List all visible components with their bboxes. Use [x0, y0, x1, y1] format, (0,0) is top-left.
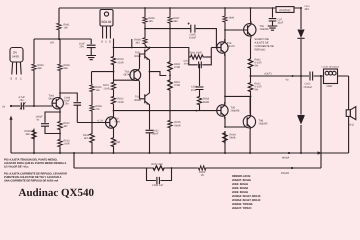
resistor R006 10k: [90, 84, 94, 93]
wire: T04 base: [211, 47, 221, 49]
wire: output rail y76: [251, 75, 349, 77]
wire: feedback up to output x321: [320, 76, 322, 168]
svg-text:33nF: 33nF: [153, 133, 159, 136]
svg-text:560R: 560R: [203, 101, 209, 104]
svg-text:BD40: BD40: [135, 55, 142, 58]
junction dots bottom rail: [33, 152, 35, 154]
svg-text:3k3: 3k3: [136, 42, 141, 45]
svg-text:10k: 10k: [96, 89, 101, 92]
junction dot T04 base: [216, 47, 218, 49]
junction dot y71.6 x113.5: [113, 71, 115, 73]
svg-text:B: B: [101, 41, 103, 44]
svg-text:220R: 220R: [118, 101, 124, 104]
wire: TA emitter to TC collector: [149, 62, 151, 91]
wire: feedback takeoff x74: [73, 153, 75, 168]
svg-text:5%: 5%: [255, 89, 259, 92]
svg-text:BA176: BA176: [227, 45, 235, 48]
junction dot TA collector: [149, 47, 151, 49]
wire: T01 collector to C004: [60, 93, 77, 102]
resistor R025 220R T02 emitter: [111, 136, 115, 148]
junction dots on y110.6: [149, 110, 151, 112]
resistor R008 3k3: [143, 37, 147, 45]
svg-text:220R: 220R: [174, 66, 180, 69]
svg-text:E: E: [109, 41, 111, 44]
svg-text:MASA: MASA: [282, 157, 290, 160]
package drawing TO-92 2N5490: [10, 48, 23, 75]
resistor R020 0.22R 5%: [248, 57, 252, 70]
wire: TB base left to divider column: [114, 79, 135, 81]
svg-text:33k: 33k: [26, 133, 31, 136]
svg-text:560R: 560R: [175, 125, 181, 128]
capacitor C02 4.7uF input: [21, 102, 23, 109]
svg-text:5490: 5490: [115, 121, 121, 124]
resistor R001 10k: [57, 22, 61, 31]
svg-text:100uF: 100uF: [189, 37, 197, 40]
svg-text:9v: 9v: [37, 119, 40, 122]
wire: column x113.5 to bus: [113, 105, 115, 110]
junction dot T01 collector: [59, 92, 61, 94]
capacitor C012 33nF: [146, 130, 154, 133]
package drawing TO-126 BD139: [100, 10, 113, 39]
wire: diode column x301: [300, 8, 302, 153]
junction dot P0 node: [291, 167, 293, 169]
svg-text:36V: 36V: [305, 8, 310, 11]
junction dot T06 collector rail: [250, 7, 252, 9]
wire: y110.6 collector bus to T05 base: [114, 110, 218, 112]
wire: TC emitter / C012 column: [149, 106, 151, 153]
svg-text:REPOSO: REPOSO: [255, 49, 266, 52]
resistor R012 4k7: [58, 120, 62, 131]
svg-text:10k: 10k: [64, 27, 69, 30]
svg-text:IN: IN: [3, 106, 6, 109]
wire: x34 column: [33, 39, 35, 153]
svg-text:OR: OR: [50, 42, 54, 45]
plus sign C005: [188, 22, 191, 24]
wire: R019 right to loop: [206, 56, 211, 58]
junction dot y127: [224, 126, 226, 128]
capacitor C022 2200uF output: [310, 72, 313, 81]
svg-text:R022 3k9: R022 3k9: [152, 163, 163, 166]
svg-text:8 Ω: 8 Ω: [350, 124, 354, 127]
resistor R013 220R: [58, 138, 62, 148]
svg-text:BD40: BD40: [135, 99, 142, 102]
wire: bootstrap y28.6: [145, 29, 216, 48]
wire: R018 to bus: [199, 106, 201, 111]
ground G1: [86, 56, 96, 60]
svg-text:2N05: BC546: 2N05: BC546: [232, 191, 248, 194]
junction dot x320.8: [320, 75, 322, 77]
transistor TA bias: [145, 48, 150, 63]
transistor T06 output 2N3055: [225, 21, 256, 39]
junction dot y96.4: [224, 96, 226, 98]
svg-text:0R47: 0R47: [327, 85, 334, 88]
wire: T01 emitter chain x57.7: [59, 112, 61, 153]
resistor R015 560R: [168, 119, 172, 129]
wire: TB emitter to TC base: [140, 81, 145, 99]
svg-text:P0A2R: P0A2R: [281, 172, 289, 175]
svg-text:56k: 56k: [64, 67, 69, 70]
wire: TA emitter jog to 220R midpoint: [150, 72, 167, 76]
wire: speaker drop x348.6: [348, 76, 350, 153]
svg-text:47nF: 47nF: [184, 63, 190, 66]
resistor R011a 220R: [113, 66, 115, 81]
capacitor C07 33uF: [269, 8, 277, 26]
svg-text:Audinac QX540: Audinac QX540: [19, 187, 95, 199]
svg-text:4k7: 4k7: [64, 125, 69, 128]
svg-text:2N6107: TIP32C: 2N6107: TIP32C: [232, 207, 252, 210]
svg-text:560B: 560B: [230, 137, 236, 140]
svg-text:Vo: Vo: [286, 79, 290, 82]
wire: T02 collector up to y110.6: [113, 111, 115, 114]
wire: input to C02: [12, 105, 20, 107]
junction dot x170 rail top: [169, 7, 171, 9]
ground G2: [268, 26, 278, 30]
diode D02: [297, 115, 304, 117]
junction dot x170 bootstrap: [169, 28, 171, 30]
svg-text:547A6: 547A6: [124, 74, 132, 77]
svg-text:C013: C013: [184, 60, 190, 63]
capacitor C008 loop parallel feedback: [147, 168, 172, 184]
junction dot x92 base wire: [91, 122, 93, 124]
svg-text:2N3054: BC627, BD140: 2N3054: BC627, BD140: [232, 199, 261, 202]
resistor R004 56k: [58, 63, 62, 72]
resistor R007 5k6: [168, 16, 172, 24]
wire: y71.6 horizontal to divider column: [92, 71, 114, 73]
resistor R023 series: [197, 166, 207, 170]
svg-text:1R: 1R: [201, 174, 204, 177]
wire: C02 to T01 base: [25, 105, 52, 107]
junction dot loop bottom: [199, 64, 201, 66]
svg-text:220R: 220R: [104, 87, 110, 90]
junction dot +Vcc corner: [300, 7, 302, 9]
capacitor C01 10uF bias decoupling + ground: [87, 39, 96, 56]
transistor T02: [106, 114, 117, 131]
wire: x170 column: [169, 8, 171, 153]
wire: TA base bus y47.5: [114, 47, 171, 49]
wire: x60 column R004 to T01: [59, 39, 61, 98]
svg-text:220R: 220R: [64, 143, 70, 146]
junction dot y47.5 x131.8 with stub: [131, 47, 133, 49]
resistor R011 220R: [168, 78, 172, 92]
junction dots C03: [59, 111, 61, 113]
wire: T06 collector to rail: [250, 8, 252, 21]
junction dot y47.5 R008 column: [144, 47, 146, 49]
svg-text:2N3054: BC637, BD139: 2N3054: BC637, BD139: [232, 195, 261, 198]
svg-text:2200uF: 2200uF: [304, 86, 313, 89]
svg-text:25v: 25v: [65, 103, 70, 106]
resistor R016 1k8: [223, 15, 227, 23]
svg-text:5k6: 5k6: [174, 20, 179, 23]
resistor R010a 220R: [113, 39, 115, 56]
svg-text:1k06: 1k06: [229, 17, 235, 20]
transistor T01: [52, 95, 63, 112]
junction dot x114: [113, 110, 115, 112]
speaker LS1: [346, 110, 350, 117]
svg-text:47nF: 47nF: [191, 89, 197, 92]
wire: C004 to T02 base: [77, 122, 109, 124]
junction dot y96.4 right: [250, 96, 252, 98]
resistor R017 560R: [223, 131, 227, 144]
junction dot y47.5 x170: [169, 47, 171, 49]
junction dot bootstrap takeoff: [144, 28, 146, 30]
wire: x225 column: [224, 8, 226, 153]
resistor R010 220R: [168, 60, 172, 73]
capacitor C03 100uF parallel R012: [41, 112, 60, 134]
svg-text:5490: 5490: [49, 98, 55, 101]
svg-text:2N3055: 2N3055: [259, 123, 269, 126]
svg-text:L=1uH 10 Espiras: L=1uH 10 Espiras: [322, 66, 340, 69]
wire: x92 divider column: [91, 72, 94, 153]
capacitor C005 100uF bootstrap: [191, 25, 195, 33]
resistor R024 4k7: [90, 132, 94, 144]
svg-text:2N05: BC546: 2N05: BC546: [232, 183, 248, 186]
svg-text:E: E: [11, 78, 13, 81]
wire: +Vcc top rail: [59, 7, 301, 9]
wire: T05 emitter to T07 base: [225, 126, 246, 128]
svg-text:25v: 25v: [20, 99, 25, 102]
wire: x145 column R009 R008: [145, 8, 148, 48]
svg-text:2N05: BC558: 2N05: BC558: [232, 187, 248, 190]
svg-text:2N3055: 2N3055: [260, 28, 270, 31]
inductor L01 box with windings: [324, 69, 338, 84]
svg-text:(OUT): (OUT): [265, 73, 272, 76]
resistor R021 0.22R 5%: [248, 81, 252, 93]
svg-text:2N5487: BC546: 2N5487: BC546: [232, 179, 251, 182]
transistor TC: [145, 91, 150, 107]
wire: bottom rail y153: [11, 152, 349, 154]
wire: column x199.5 to C014: [199, 65, 201, 86]
svg-text:2N6055: TIP3055: 2N6055: TIP3055: [232, 203, 253, 206]
svg-text:4k7: 4k7: [84, 137, 89, 140]
resistor R005 33k: [32, 129, 36, 140]
resistor R018 560R: [197, 95, 201, 106]
resistor R009 1k5: [143, 16, 147, 24]
svg-text:220R: 220R: [114, 141, 120, 144]
svg-text:+1,2V: +1,2V: [97, 120, 104, 123]
svg-text:1k5: 1k5: [149, 20, 154, 23]
svg-text:25V: 25V: [80, 46, 85, 49]
svg-text:27k: 27k: [96, 108, 101, 111]
transistor T04 driver: [217, 39, 228, 56]
svg-text:C: C: [20, 78, 22, 81]
thermal resistor box R02TH on rail: [276, 7, 294, 13]
svg-text:1/2 VALOR DE +Vcc: 1/2 VALOR DE +Vcc: [4, 166, 29, 169]
svg-text:220R: 220R: [118, 61, 124, 64]
junction dot C07 rail: [272, 7, 274, 9]
wire: input ground arrow x11: [10, 119, 12, 154]
transistor T05 driver: [217, 102, 228, 119]
input terminal IN: [10, 105, 12, 107]
junction dot TA emitter column: [149, 71, 151, 73]
svg-text:43k: 43k: [38, 67, 43, 70]
wire: vertical x59 rail to node A: [58, 8, 60, 39]
capacitor C014 47nF: [196, 87, 204, 95]
wire: T07 collector/emitter: [249, 96, 251, 153]
svg-text:R019 100R: R019 100R: [189, 52, 202, 55]
resistor R022 3k9 feedback: [151, 166, 166, 170]
wire: y96.4 to output devices: [225, 95, 251, 97]
resistor R014 27k: [90, 104, 94, 112]
svg-text:UNA CORRIENTE DE REPOSO DE 40/: UNA CORRIENTE DE REPOSO DE 40/50 mA: [4, 180, 58, 183]
junction dot T06 base node: [224, 29, 226, 31]
svg-text:33uF: 33uF: [278, 22, 284, 25]
transistor TB: [130, 69, 141, 81]
junction dot x34 input wire: [33, 105, 35, 107]
capacitor C013 47n parallel loop: [189, 48, 212, 69]
junction dot feedback right of R022: [171, 167, 173, 169]
resistor R019 100R: [189, 55, 206, 59]
svg-text:C008 1nF: C008 1nF: [152, 184, 164, 187]
arrow at rail crossing x321: [318, 151, 323, 154]
diode D01: [297, 30, 304, 39]
svg-text:C: C: [105, 41, 107, 44]
junction dot node A: [58, 38, 60, 40]
wire: feedback line y168: [74, 167, 321, 169]
svg-text:5490: 5490: [12, 55, 19, 59]
svg-text:2N3054: 2N3054: [231, 110, 241, 113]
svg-text:BD139: BD139: [102, 20, 112, 24]
svg-text:220R: 220R: [174, 84, 180, 87]
junction dot output rail x292.5: [292, 75, 294, 77]
junction dot R010/R011 midpoint: [169, 75, 171, 77]
svg-text:5%: 5%: [255, 65, 259, 68]
capacitor C004 10uF coupling: [74, 103, 82, 123]
svg-text:B: B: [16, 78, 18, 81]
junction dot diode column on output rail: [300, 75, 302, 77]
junction dot output node: [250, 75, 252, 77]
resistor R003 43k: [32, 63, 36, 72]
svg-text:REEMPLAZOS:: REEMPLAZOS:: [232, 175, 251, 178]
resistor R012a 220R: [113, 91, 115, 95]
wire: T06 base y30: [225, 29, 247, 31]
wire: TA bus corner into RC network: [170, 48, 189, 58]
transistor T07 output 2N3055: [243, 113, 255, 131]
svg-text:R02(TH)2: R02(TH)2: [280, 9, 292, 12]
wire: T02 emitter chain: [113, 131, 115, 153]
wire: T06 emitter to R020: [250, 39, 252, 115]
wire: TB collector to TA base: [140, 54, 145, 69]
node A wire y39: [34, 38, 91, 40]
